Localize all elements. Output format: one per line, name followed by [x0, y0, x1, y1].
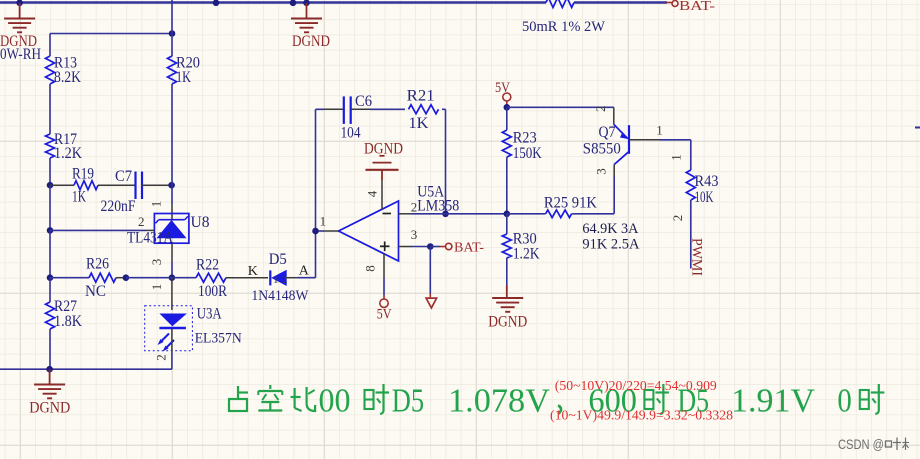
- svg-text:EL357N: EL357N: [195, 331, 242, 347]
- svg-text:TL431A: TL431A: [127, 230, 173, 247]
- annotation green text: [229, 383, 884, 420]
- svg-text:10K: 10K: [695, 189, 714, 206]
- svg-text:(50~10V)20/220=4.54~0.909: (50~10V)20/220=4.54~0.909: [555, 378, 717, 393]
- svg-text:R25 91K: R25 91K: [544, 195, 597, 212]
- pin 2 label U3A: [154, 354, 169, 361]
- resistor R20: [168, 55, 201, 87]
- port PWM: [689, 238, 705, 276]
- resistor R30: [502, 214, 540, 285]
- terminal BAT- mid: [430, 241, 484, 256]
- terminal BAT- top: [672, 0, 715, 14]
- resistor shunt 50mR: [522, 0, 606, 35]
- wire 5V rail: [507, 106, 614, 108]
- wire C7node-U8: [171, 185, 173, 220]
- node junction top D: [303, 0, 310, 6]
- pin 3 label U8: [149, 259, 164, 266]
- node junction U8-R22: [169, 274, 176, 281]
- svg-text:4: 4: [365, 190, 380, 197]
- node junction top A: [16, 0, 23, 6]
- annotation red formula 2: [550, 408, 733, 423]
- capacitor C7: [101, 168, 143, 215]
- svg-text:LM358: LM358: [417, 198, 459, 215]
- svg-text:100R: 100R: [198, 283, 227, 300]
- svg-text:1: 1: [669, 154, 684, 161]
- svg-text:2: 2: [670, 215, 685, 222]
- optocoupler U3A EL357N: [145, 306, 242, 352]
- svg-text:DGND: DGND: [29, 400, 70, 417]
- node junction bottom: [46, 366, 53, 373]
- svg-text:1: 1: [320, 214, 327, 229]
- resistor R13: [46, 55, 82, 87]
- svg-text:1.2K: 1.2K: [54, 145, 82, 162]
- svg-text:DGND: DGND: [488, 313, 527, 330]
- svg-text:DGND: DGND: [364, 141, 403, 158]
- op-amp U5A LM358: [339, 183, 460, 261]
- node junction C7: [168, 182, 175, 189]
- wire U8 ref pin2: [50, 229, 154, 231]
- resistor R19: [72, 166, 98, 206]
- svg-text:1: 1: [149, 284, 164, 291]
- pin 2 label opamp: [411, 200, 418, 215]
- svg-text:2: 2: [154, 354, 169, 361]
- wire top crossing: [171, 0, 173, 56]
- svg-text:R22: R22: [196, 257, 219, 274]
- svg-text:8.2K: 8.2K: [54, 69, 81, 86]
- svg-text:R43: R43: [695, 173, 719, 190]
- node junction pin3: [427, 243, 434, 250]
- svg-text:1.91V: 1.91V: [731, 383, 815, 420]
- svg-text:2: 2: [282, 274, 288, 286]
- label 91K 2.5A: [582, 237, 639, 253]
- pin 1 label Q7: [656, 123, 663, 138]
- resistor R43: [686, 140, 718, 269]
- svg-text:3: 3: [411, 227, 418, 242]
- label A: [299, 264, 310, 279]
- resistor R23: [502, 107, 542, 214]
- ground DGND top-mid: [291, 3, 330, 50]
- svg-text:R26: R26: [86, 256, 109, 273]
- annotation red formula 1: [555, 378, 717, 393]
- node junction R23-R30: [504, 211, 511, 218]
- pin 1 label R43: [669, 154, 684, 161]
- resistor R25: [507, 195, 614, 218]
- svg-text:NC: NC: [85, 283, 106, 300]
- wire pin4: [381, 180, 383, 209]
- ground DGND opamp: [364, 141, 403, 181]
- wire opamp out: [316, 230, 339, 232]
- pin 1 label U8: [149, 201, 164, 208]
- wire pin8: [383, 254, 385, 299]
- node junction U8ref: [47, 227, 54, 234]
- svg-text:8: 8: [363, 265, 378, 272]
- svg-text:R21: R21: [407, 88, 435, 105]
- wire D5-corner: [287, 231, 316, 278]
- wire R19-C7: [98, 184, 136, 186]
- terminal arrow down: [426, 298, 437, 308]
- svg-text:00: 00: [319, 383, 351, 420]
- svg-text:S8550: S8550: [583, 141, 621, 158]
- wire rail to R13 column: [50, 34, 172, 57]
- svg-text:C7: C7: [115, 168, 132, 185]
- svg-text:1: 1: [273, 274, 279, 286]
- svg-text:Q7: Q7: [599, 124, 616, 141]
- wire pin3: [399, 246, 431, 248]
- svg-text:1K: 1K: [409, 115, 429, 132]
- terminal 5V opamp: [377, 299, 392, 323]
- wire U3A pin2: [0, 329, 172, 369]
- pin numbers D5: [273, 274, 288, 286]
- svg-text:1.8K: 1.8K: [54, 313, 82, 330]
- wire R20-C7node: [171, 84, 173, 185]
- pin 1 label opamp: [320, 214, 327, 229]
- label K: [248, 264, 258, 279]
- svg-text:2: 2: [593, 106, 608, 113]
- svg-text:K: K: [248, 264, 258, 279]
- svg-text:BAT-: BAT-: [454, 241, 484, 256]
- wire R19 left: [50, 184, 74, 186]
- svg-text:1N4148W: 1N4148W: [251, 288, 309, 304]
- svg-text:0W-RH: 0W-RH: [0, 46, 41, 63]
- svg-text:C6: C6: [355, 93, 372, 110]
- node junction R21-pin2: [442, 211, 449, 218]
- svg-text:50mR 1% 2W: 50mR 1% 2W: [522, 19, 606, 35]
- svg-text:U3A: U3A: [197, 306, 222, 323]
- wire U8 pin3 down: [171, 243, 173, 278]
- svg-text:D5: D5: [269, 251, 287, 268]
- label 0W-RH: [0, 46, 41, 63]
- svg-text:0: 0: [837, 383, 851, 420]
- resistor R21: [407, 88, 439, 133]
- wire column mid2: [49, 230, 51, 277]
- wire top BAT- rail: [0, 1, 672, 4]
- wire R13-R17: [49, 84, 51, 134]
- svg-text:91K 2.5A: 91K 2.5A: [582, 237, 639, 253]
- pin 2 label R43: [670, 215, 685, 222]
- wire R27-gnd node: [49, 329, 51, 369]
- svg-text:2: 2: [138, 214, 145, 229]
- wire right edge stub: [915, 127, 920, 129]
- pin 1 label U3A: [149, 284, 164, 291]
- node junction 5V: [504, 104, 511, 111]
- terminal 5V right: [495, 80, 511, 107]
- ground DGND bottom-left: [29, 369, 70, 416]
- pin 2 label Q7: [593, 106, 608, 113]
- svg-text:1.078V: 1.078V: [448, 383, 550, 420]
- wire C7-node: [142, 184, 172, 186]
- svg-text:104: 104: [341, 125, 361, 142]
- svg-text:D5: D5: [392, 383, 424, 420]
- pin 8 label opamp: [363, 265, 378, 272]
- ground DGND top-left: [0, 3, 37, 50]
- svg-text:150K: 150K: [513, 145, 542, 162]
- wire pin3-arrow: [429, 247, 431, 299]
- svg-text:CSDN @: CSDN @: [838, 436, 884, 452]
- ground DGND right: [488, 285, 527, 330]
- wire C6-R21: [351, 108, 405, 110]
- svg-text:220nF: 220nF: [101, 198, 136, 215]
- wire C6 left branch: [316, 109, 344, 231]
- svg-text:PWMI: PWMI: [689, 238, 705, 276]
- svg-text:(10~1V)49.9/149.9=3.32~0.3328: (10~1V)49.9/149.9=3.32~0.3328: [550, 408, 733, 423]
- svg-text:3: 3: [149, 259, 164, 266]
- resistor R17: [46, 131, 83, 162]
- svg-text:1: 1: [149, 201, 164, 208]
- wire R17-node: [49, 158, 51, 185]
- svg-text:A: A: [299, 264, 310, 279]
- svg-text:DGND: DGND: [292, 33, 330, 50]
- transistor Q7 S8550: [583, 107, 691, 214]
- node junction R26-right: [116, 274, 172, 281]
- diode D5 1N4148W: [251, 251, 309, 304]
- svg-text:1: 1: [656, 123, 663, 138]
- svg-text:R19: R19: [72, 166, 94, 183]
- wire U8node-U3A: [171, 278, 173, 310]
- wire column to R27: [49, 278, 51, 302]
- resistor R26: [50, 256, 116, 301]
- capacitor C6: [341, 93, 373, 142]
- wire R21-corner: [442, 109, 446, 214]
- resistor R27: [46, 298, 83, 330]
- label 64.9K 3A: [582, 221, 638, 237]
- wire column mid: [49, 185, 51, 230]
- node junction R19: [47, 182, 54, 189]
- pin 2 label U8: [138, 214, 145, 229]
- node junction opamp-out: [312, 228, 319, 235]
- regulator U8 TL431A: [127, 214, 210, 247]
- svg-text:64.9K 3A: 64.9K 3A: [582, 221, 638, 237]
- wire pin2: [399, 213, 507, 215]
- svg-text:1.2K: 1.2K: [513, 246, 540, 263]
- node junction top C: [290, 0, 297, 6]
- node junction rail-R20: [169, 30, 176, 37]
- node junction top B: [213, 0, 220, 6]
- resistor R22: [172, 257, 227, 301]
- svg-text:U8: U8: [191, 214, 210, 231]
- watermark: [838, 436, 909, 452]
- svg-text:5V: 5V: [377, 307, 392, 323]
- svg-text:2: 2: [411, 200, 418, 215]
- svg-text:1K: 1K: [176, 69, 191, 86]
- svg-text:BAT-: BAT-: [679, 0, 715, 14]
- pin 3 label Q7: [594, 168, 609, 175]
- pin 3 label opamp: [411, 227, 418, 242]
- wire R22-D5: [226, 277, 268, 279]
- svg-text:3: 3: [594, 168, 609, 175]
- pin 4 label opamp: [365, 190, 380, 197]
- svg-text:1K: 1K: [72, 189, 86, 206]
- node junction R26: [47, 274, 54, 281]
